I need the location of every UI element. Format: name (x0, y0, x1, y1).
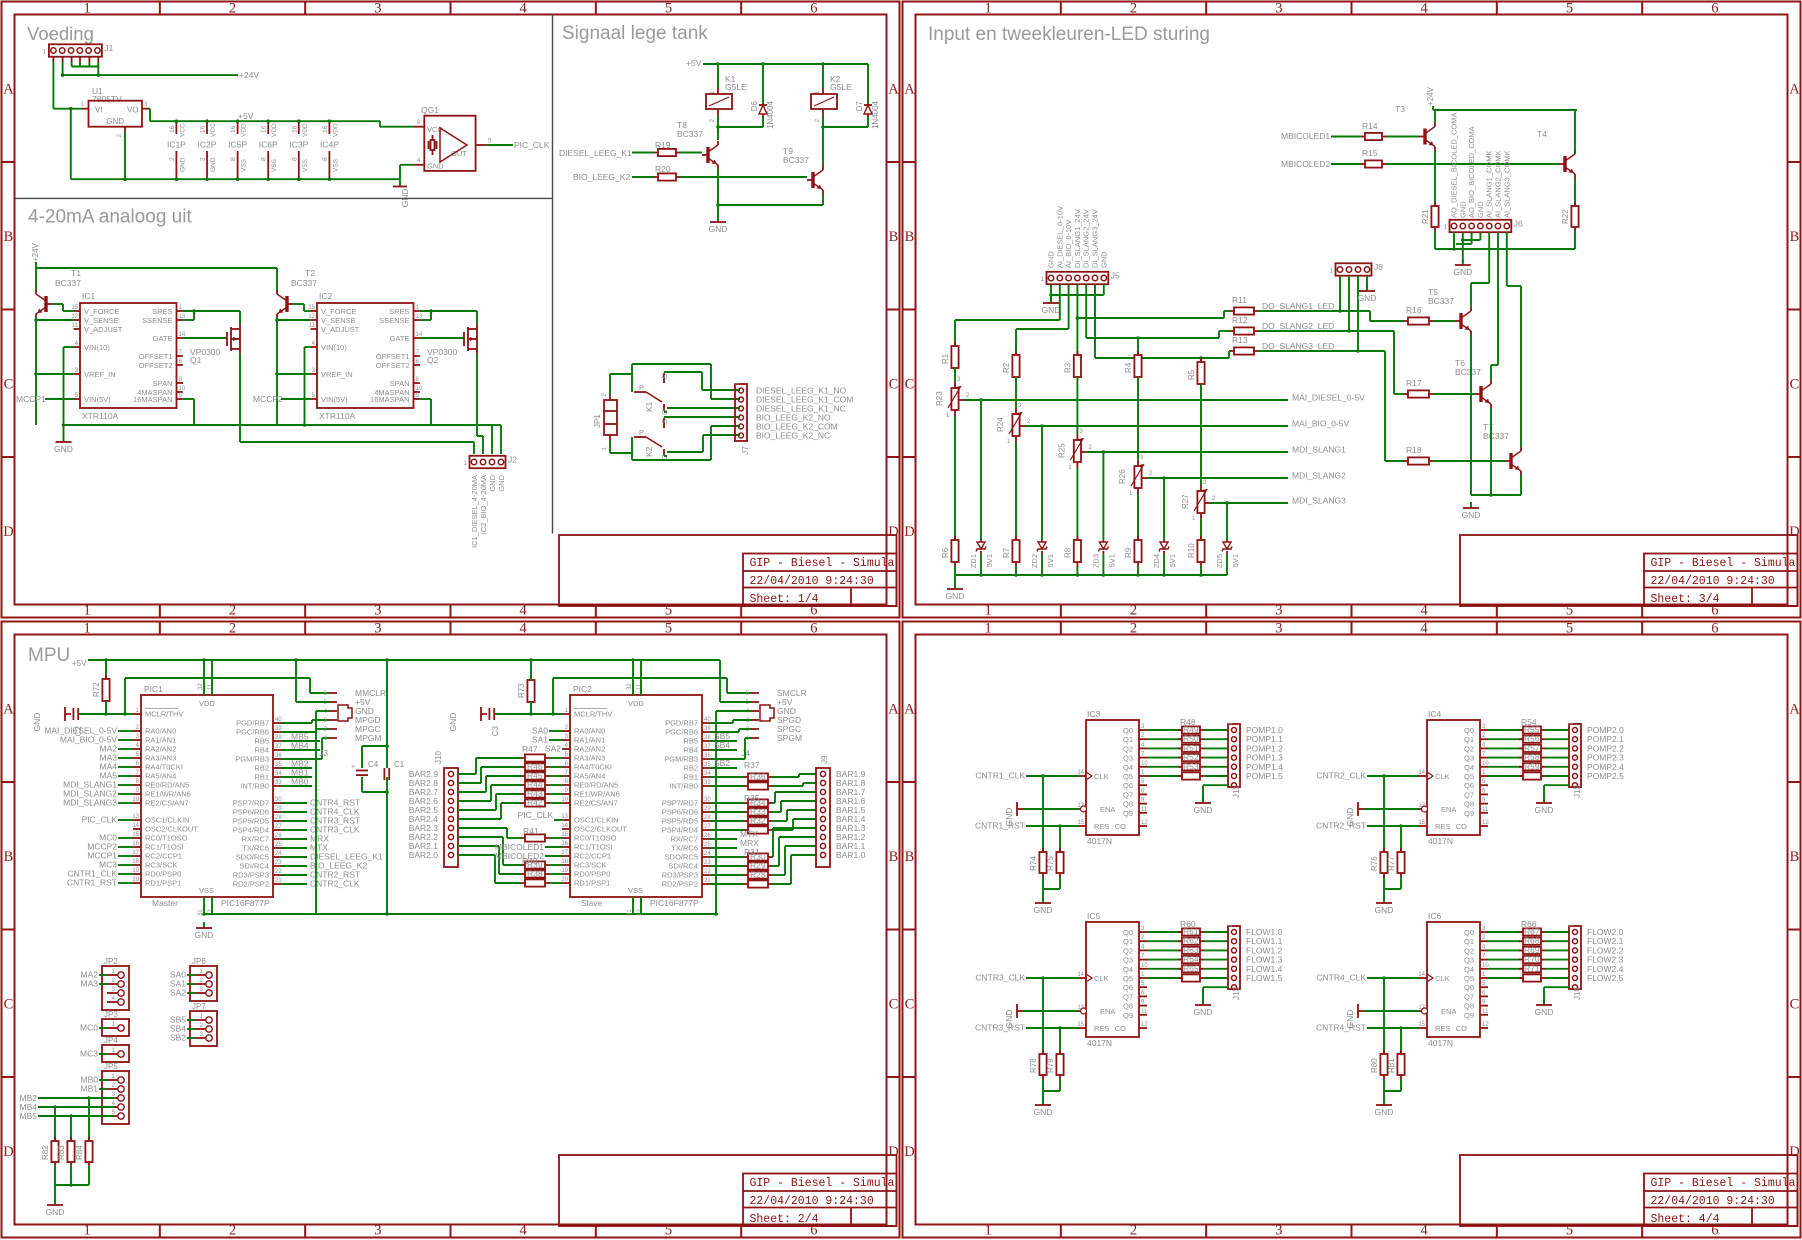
svg-text:MB5: MB5 (20, 1111, 38, 1121)
wire r rst (1059, 826, 1061, 852)
wire ssense (420, 319, 431, 321)
wire gnd rail (204, 913, 718, 915)
resistor R18 (1404, 460, 1408, 462)
svg-text:SSENSE: SSENSE (142, 316, 172, 325)
wire +5V rail (88, 659, 720, 661)
wire Q1 source down (239, 354, 241, 442)
wire (1383, 1079, 1385, 1091)
wire (1488, 738, 1523, 740)
title block (559, 535, 897, 606)
transistor T5 (1459, 313, 1462, 329)
net CNTR4_RST (281, 802, 307, 804)
svg-text:R71: R71 (1524, 963, 1540, 973)
svg-text:OSC1/CLKIN: OSC1/CLKIN (145, 816, 190, 825)
svg-text:R41: R41 (523, 826, 539, 836)
svg-text:5: 5 (1566, 1223, 1573, 1239)
svg-text:Q7: Q7 (1123, 992, 1133, 1001)
wire j8 p3 (1357, 276, 1359, 351)
svg-text:3: 3 (1275, 621, 1282, 637)
net DIESEL_LEEG_K1 (281, 856, 307, 858)
svg-text:14: 14 (1077, 972, 1084, 978)
svg-text:RB4: RB4 (254, 746, 269, 755)
wire VREF_IN (36, 373, 74, 375)
svg-text:2: 2 (229, 603, 236, 619)
wire (1137, 566, 1139, 575)
svg-text:VCC: VCC (427, 125, 443, 134)
svg-text:1N4004: 1N4004 (871, 100, 880, 129)
ground (1470, 502, 1472, 508)
mosfet Q2 (463, 332, 465, 346)
svg-text:Q9: Q9 (1123, 809, 1133, 818)
svg-text:AI_SLANG2_COMK: AI_SLANG2_COMK (1494, 150, 1503, 218)
svg-text:SPAN: SPAN (153, 379, 173, 388)
power pins IC6P (267, 121, 269, 134)
wire 16maspan (420, 398, 431, 400)
wire (954, 575, 956, 586)
connector J2 (470, 456, 506, 468)
ground (1543, 999, 1545, 1005)
svg-text:R18: R18 (1406, 445, 1422, 455)
resistor R75 (1059, 848, 1061, 852)
zener ZD4 (1160, 542, 1168, 549)
svg-text:10: 10 (179, 386, 186, 392)
svg-text:5: 5 (1566, 1, 1573, 17)
wire out2 (477, 435, 483, 437)
svg-text:C: C (4, 996, 14, 1012)
svg-text:Q4: Q4 (1123, 763, 1133, 772)
svg-text:MCCP2: MCCP2 (253, 394, 283, 404)
svg-text:22/04/2010 9:24:30: 22/04/2010 9:24:30 (750, 1195, 874, 1208)
svg-text:IC4: IC4 (1428, 709, 1442, 719)
svg-text:13: 13 (561, 814, 568, 820)
svg-text:Q3: Q3 (1123, 956, 1133, 965)
svg-text:C: C (1790, 376, 1800, 392)
svg-text:CNTR1_RST: CNTR1_RST (67, 878, 117, 888)
wire to zener (980, 400, 982, 540)
wire jp1 k1 (609, 374, 611, 395)
svg-text:BC337: BC337 (55, 278, 81, 288)
svg-text:SDO/RC5: SDO/RC5 (665, 853, 698, 862)
svg-text:1: 1 (84, 621, 91, 637)
wire (1545, 940, 1569, 942)
svg-text:DI_SLANG2_24V: DI_SLANG2_24V (1082, 209, 1091, 268)
svg-text:VDD: VDD (241, 123, 248, 137)
trimmer R27 (1200, 485, 1202, 491)
svg-text:Q5: Q5 (1123, 772, 1133, 781)
wire gnd j3 (316, 710, 329, 712)
svg-text:G5LE: G5LE (830, 82, 852, 92)
svg-text:RE2/CS/AN7: RE2/CS/AN7 (145, 799, 189, 808)
svg-text:20: 20 (561, 877, 568, 883)
wire +24V rail (35, 262, 37, 268)
wire j5 p6 (1094, 284, 1096, 358)
resistor R79 (1059, 1050, 1061, 1054)
svg-text:4: 4 (1421, 1, 1429, 17)
svg-text:IC1_DIESEL_4-20MA: IC1_DIESEL_4-20MA (470, 475, 479, 548)
resistor R7 (1015, 536, 1017, 540)
svg-text:Q6: Q6 (1123, 983, 1133, 992)
resistor R81 (1400, 1050, 1402, 1054)
svg-text:T3: T3 (1395, 104, 1405, 114)
svg-text:ZD4: ZD4 (1152, 554, 1161, 568)
svg-text:RC2/CCP1: RC2/CCP1 (145, 852, 182, 861)
svg-text:Q9: Q9 (1464, 1011, 1474, 1020)
svg-text:Q9: Q9 (1123, 1011, 1133, 1020)
svg-text:T1: T1 (71, 268, 81, 278)
svg-text:1N4004: 1N4004 (766, 100, 775, 129)
svg-text:GND: GND (1476, 201, 1485, 218)
svg-text:R73: R73 (517, 683, 526, 698)
svg-text:POMP1.5: POMP1.5 (1246, 771, 1283, 781)
svg-text:VCC: VCC (179, 123, 186, 137)
wire T2 emitter (276, 317, 278, 425)
net +24V (63, 74, 238, 76)
svg-text:3: 3 (374, 621, 381, 637)
svg-text:GND: GND (1004, 1010, 1014, 1029)
svg-text:MCCP1: MCCP1 (16, 394, 46, 404)
svg-text:RD0/PSP0: RD0/PSP0 (574, 870, 610, 879)
transistor T3 (1423, 129, 1426, 145)
wire T9 emitter (822, 194, 824, 205)
svg-text:AO_DIESEL_BICOLED_COMA: AO_DIESEL_BICOLED_COMA (1450, 113, 1459, 218)
wire to zener (1226, 503, 1228, 540)
wire vss2 (211, 897, 213, 914)
wire (1545, 766, 1569, 768)
svg-text:Q0: Q0 (1464, 726, 1474, 735)
svg-text:J11: J11 (1232, 785, 1241, 798)
svg-text:15: 15 (1418, 820, 1425, 826)
wire gnd rail (1471, 494, 1521, 496)
svg-text:+24V: +24V (239, 70, 259, 80)
wire (1545, 738, 1569, 740)
svg-text:RX/RC7: RX/RC7 (241, 835, 269, 844)
svg-text:CLK: CLK (1435, 974, 1450, 983)
svg-text:J14: J14 (1573, 987, 1582, 1000)
svg-text:15: 15 (308, 305, 315, 311)
svg-text:RA2/AN2: RA2/AN2 (145, 745, 176, 754)
svg-text:RC0/T1OSO: RC0/T1OSO (145, 834, 188, 843)
wire K1 bottom (717, 115, 719, 140)
svg-text:2: 2 (229, 1223, 236, 1239)
svg-text:16: 16 (169, 125, 176, 133)
svg-text:12: 12 (71, 314, 78, 320)
svg-text:R6: R6 (941, 547, 950, 558)
wire j5 p3 (1068, 284, 1070, 329)
svg-text:IC5P: IC5P (228, 140, 247, 150)
wire to zener (1102, 452, 1104, 540)
svg-text:V_ADJUST: V_ADJUST (84, 325, 123, 334)
svg-text:R7: R7 (1002, 547, 1011, 558)
svg-text:RD1/PSP1: RD1/PSP1 (145, 879, 181, 888)
svg-text:11: 11 (1482, 1009, 1489, 1015)
svg-text:RE0/RD/AN5: RE0/RD/AN5 (145, 781, 189, 790)
connector J5 (1047, 272, 1109, 284)
wire (1433, 393, 1475, 395)
trimmer R23 (954, 382, 956, 388)
svg-text:PGC/RB6: PGC/RB6 (665, 728, 698, 737)
wire (710, 776, 744, 778)
transistor T8 (706, 147, 709, 163)
resistor R22 (1574, 202, 1576, 206)
svg-text:DIESEL_LEEG_K1: DIESEL_LEEG_K1 (559, 148, 632, 158)
ground (1357, 1004, 1359, 1018)
wire (1042, 877, 1044, 889)
wire j5 p5 (1085, 284, 1087, 338)
svg-text:IC3P: IC3P (289, 140, 308, 150)
resistor R14 (1361, 136, 1365, 138)
svg-text:R38: R38 (527, 869, 543, 879)
svg-text:5V1: 5V1 (1168, 554, 1177, 567)
wire (549, 793, 562, 795)
svg-text:GATE: GATE (153, 334, 173, 343)
wire (980, 554, 982, 575)
wire stair (458, 782, 481, 784)
wire smclr (552, 678, 554, 714)
svg-text:SDI/RC4: SDI/RC4 (668, 862, 698, 871)
svg-text:4: 4 (1421, 603, 1429, 619)
svg-text:RB2: RB2 (254, 764, 269, 773)
svg-text:8: 8 (230, 157, 237, 161)
svg-text:5: 5 (1566, 603, 1573, 619)
wire (1204, 959, 1228, 961)
wire k1 top (717, 64, 719, 88)
svg-text:B: B (1790, 849, 1800, 865)
svg-text:Q1: Q1 (190, 355, 202, 365)
svg-text:ZD2: ZD2 (1030, 554, 1039, 568)
svg-text:C1: C1 (394, 760, 405, 769)
resistor R16 (1404, 320, 1408, 322)
wire vss pic2 (632, 897, 634, 914)
svg-text:RA3/AN3: RA3/AN3 (574, 754, 605, 763)
wire (52, 57, 54, 62)
svg-text:Q2: Q2 (427, 355, 439, 365)
svg-text:MA3: MA3 (81, 979, 99, 989)
wire (1331, 163, 1361, 165)
wire j6 p5 T5 collector (1488, 232, 1490, 283)
wire r1 bottom (954, 368, 956, 382)
resistor R83 (70, 1137, 72, 1141)
svg-text:11: 11 (208, 683, 214, 690)
svg-text:B: B (4, 849, 14, 865)
svg-text:GND: GND (1453, 267, 1472, 277)
svg-text:4017N: 4017N (1428, 1038, 1453, 1048)
svg-text:GND: GND (1345, 808, 1355, 827)
svg-text:A: A (904, 81, 915, 97)
wire T7 emitter (1520, 475, 1522, 495)
wire j8 p1 (1339, 276, 1341, 311)
svg-text:CNTR4_RST: CNTR4_RST (1316, 1023, 1366, 1033)
wire (1488, 729, 1523, 731)
connector J1 (49, 44, 102, 56)
wire pgc (281, 731, 316, 733)
wire R72 bottom (105, 701, 107, 714)
wire (1163, 554, 1165, 575)
svg-text:ENA: ENA (1100, 805, 1115, 814)
wire R25 bottom (1076, 468, 1078, 540)
svg-text:GND: GND (1034, 905, 1053, 915)
svg-text:4017N: 4017N (1087, 836, 1112, 846)
net MB4 (281, 749, 320, 751)
svg-text:GND: GND (1004, 808, 1014, 827)
svg-text:R19: R19 (655, 140, 671, 150)
ground (399, 180, 401, 187)
svg-text:VDD: VDD (271, 123, 278, 137)
svg-text:5V1: 5V1 (1107, 554, 1116, 567)
svg-text:V_SENSE: V_SENSE (84, 316, 119, 325)
svg-text:GND: GND (106, 117, 124, 126)
wire (710, 865, 744, 867)
wire stair (772, 865, 779, 867)
svg-text:AI_SLANG3_COMK: AI_SLANG3_COMK (1502, 150, 1511, 218)
svg-text:R47: R47 (522, 744, 538, 754)
wire (549, 784, 562, 786)
wire R72 top (105, 660, 107, 679)
svg-text:SB2: SB2 (170, 1033, 186, 1043)
wire stair (772, 820, 787, 822)
net MB1 (281, 776, 312, 778)
svg-text:GND: GND (210, 157, 217, 172)
svg-text:GND: GND (946, 591, 965, 601)
svg-text:11: 11 (72, 323, 79, 329)
svg-text:J5: J5 (1111, 271, 1120, 281)
wire to GND rail (70, 109, 72, 180)
resistor R11 (1230, 310, 1234, 312)
svg-text:R21: R21 (1421, 209, 1430, 224)
wire k2 s (664, 416, 740, 418)
svg-text:R77: R77 (1387, 856, 1396, 871)
svg-text:Sheet: 2/4: Sheet: 2/4 (750, 1213, 819, 1226)
svg-text:ENA: ENA (1100, 1007, 1115, 1016)
wire (1545, 949, 1569, 951)
svg-text:4017N: 4017N (1428, 836, 1453, 846)
wire stair (772, 856, 773, 858)
wire (710, 785, 744, 787)
wire (1204, 977, 1228, 979)
net MRX (281, 838, 307, 840)
svg-text:+: + (351, 764, 355, 771)
svg-text:RE0/RD/AN5: RE0/RD/AN5 (574, 781, 618, 790)
svg-text:15: 15 (71, 305, 78, 311)
svg-text:Sheet: 3/4: Sheet: 3/4 (1651, 593, 1720, 606)
resistor R21 (1434, 202, 1436, 206)
svg-text:C3: C3 (491, 725, 500, 736)
wire (1545, 729, 1569, 731)
svg-text:S: S (660, 419, 669, 424)
svg-text:Q0: Q0 (1123, 726, 1133, 735)
sheet 3 frame (903, 2, 1801, 618)
svg-text:JP4: JP4 (104, 1036, 118, 1045)
svg-text:RC1/T1OSI: RC1/T1OSI (145, 843, 184, 852)
svg-text:V_ADJUST: V_ADJUST (321, 325, 360, 334)
svg-text:GND: GND (1462, 510, 1481, 520)
svg-text:1: 1 (84, 603, 91, 619)
svg-text:OSC2/CLKOUT: OSC2/CLKOUT (145, 825, 198, 834)
wire T3 emitter (1434, 151, 1436, 207)
power pins IC3P (298, 121, 300, 134)
svg-text:AI_SLANG1_COMK: AI_SLANG1_COMK (1485, 150, 1494, 218)
net MDI_SLANG1 (1086, 451, 1288, 453)
svg-text:R5: R5 (1187, 369, 1196, 380)
svg-text:BC337: BC337 (783, 155, 809, 165)
svg-text:IC3: IC3 (1087, 709, 1101, 719)
svg-text:R13: R13 (1232, 335, 1248, 345)
svg-text:3: 3 (1275, 1223, 1282, 1239)
svg-text:VIN(5V): VIN(5V) (321, 395, 348, 404)
ground (1383, 897, 1385, 903)
svg-text:22/04/2010 9:24:30: 22/04/2010 9:24:30 (750, 575, 874, 588)
svg-text:RB1: RB1 (254, 773, 269, 782)
svg-text:19: 19 (561, 868, 568, 874)
svg-text:J2: J2 (508, 455, 517, 465)
svg-text:IC2P: IC2P (198, 140, 217, 150)
wire VI input (53, 108, 82, 110)
svg-text:15: 15 (561, 832, 568, 838)
wire sres (183, 310, 240, 312)
svg-text:Q1: Q1 (1464, 937, 1474, 946)
svg-text:PSP6/RD6: PSP6/RD6 (662, 808, 698, 817)
svg-text:CNTR1_RST: CNTR1_RST (975, 821, 1025, 831)
wire vdd1 (203, 660, 205, 695)
svg-text:Q2: Q2 (1464, 946, 1474, 955)
svg-text:FLOW1.5: FLOW1.5 (1246, 973, 1283, 983)
wire j6 p1 (1453, 232, 1455, 249)
svg-text:2: 2 (1130, 1223, 1137, 1239)
title block (1460, 1155, 1798, 1226)
wire k2 o (664, 455, 667, 457)
svg-text:Q0: Q0 (1464, 928, 1474, 937)
svg-text:GND: GND (1535, 805, 1554, 815)
svg-text:+24V: +24V (1426, 86, 1435, 106)
svg-text:Q8: Q8 (1123, 1002, 1133, 1011)
svg-text:11: 11 (637, 683, 643, 690)
svg-text:DO_SLANG2_LED: DO_SLANG2_LED (1262, 321, 1334, 331)
svg-text:Q9: Q9 (1464, 809, 1474, 818)
svg-text:IC5: IC5 (1087, 911, 1101, 921)
wire (1147, 729, 1182, 731)
svg-text:RC0/T1OSO: RC0/T1OSO (574, 834, 617, 843)
wire r clk (1383, 776, 1385, 852)
wire (1488, 977, 1523, 979)
wire (549, 837, 562, 839)
svg-text:R82: R82 (41, 1145, 50, 1160)
svg-text:Slave: Slave (581, 898, 603, 908)
svg-text:BAR2.0: BAR2.0 (409, 850, 439, 860)
wire (1386, 163, 1559, 165)
wire spgc (710, 731, 739, 733)
wire j6 p7 T7 collector (1506, 232, 1508, 286)
connector J8 (1336, 263, 1372, 275)
svg-text:12: 12 (308, 314, 315, 320)
wire (549, 864, 562, 866)
svg-text:R24: R24 (996, 417, 1005, 432)
wire r20 in (632, 176, 654, 178)
svg-text:C: C (1790, 996, 1800, 1012)
net CNTR3_CLK (281, 829, 307, 831)
wire (1488, 757, 1523, 759)
wire k1 s (664, 371, 667, 373)
resistor R72 (105, 675, 107, 679)
svg-text:17: 17 (561, 850, 568, 856)
svg-text:R32: R32 (750, 816, 766, 826)
svg-text:16MASPAN: 16MASPAN (133, 395, 172, 404)
wire caps bottom (361, 777, 363, 792)
wire jp1 k2 (609, 440, 611, 453)
svg-text:CNTR1_CLK: CNTR1_CLK (975, 771, 1025, 781)
wire (549, 757, 562, 759)
wire stair (772, 802, 775, 804)
svg-text:11: 11 (309, 323, 316, 329)
wire to zener (1041, 426, 1043, 540)
